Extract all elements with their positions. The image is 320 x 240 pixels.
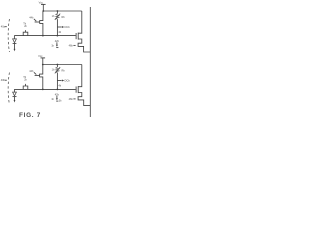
node dot bus-stem cell2 [42,64,44,66]
transistor Qa cell1 (small bracket) [40,11,43,36]
node dot Qa lower [42,35,44,37]
diode cell1: turn down from lower bus [13,36,15,39]
svg-text:46b: 46b [69,98,74,101]
svg-text:2b: 2b [24,26,27,28]
arrow across resistor cell2 [55,67,60,73]
diode stem down [14,43,16,49]
diode cathode bar cell2 [13,96,17,98]
bump on lower bus [23,32,28,35]
svg-text:DCb: DCb [65,25,71,29]
brace cell 2 [8,73,9,105]
right shared line [89,7,91,117]
DCb arrowhead cell2 [62,80,64,82]
lower bus cell2 [14,88,76,90]
svg-text:1b: 1b [51,45,54,47]
leader dash for 40b [5,79,7,81]
node dot resistor tap [57,10,59,12]
diode triangle cell2 [13,92,17,96]
node dot Qa lower cell2 [42,89,44,91]
variable resistor Rb cell1 [56,14,59,20]
leader dash for 40a [5,26,7,28]
svg-text:2b: 2b [24,80,27,82]
svg-text:44b: 44b [29,17,34,20]
diode stem down cell2 [14,97,16,101]
bump top tick [25,30,27,32]
svg-text:FIG. 7: FIG. 7 [19,112,41,119]
top bus wire cell1 [43,10,82,12]
wire bus to resistor cell2 [56,65,58,68]
svg-text:44b: 44b [29,70,34,73]
gate bar M2 [75,87,77,93]
node dot bus-stem [42,10,44,12]
small bar cell2 [56,100,58,102]
svg-text:1b: 1b [52,69,55,72]
diode triangle cell1 [13,39,17,43]
MOSFET M2 cell2: drain from bus corner [78,65,82,87]
gate wire cell2 [35,74,40,76]
down arrowhead cell2 [14,100,16,103]
small down arrow [56,45,58,47]
lower bus cell1 [14,35,76,37]
wire resistor down to lower bus cell2 [56,73,58,90]
node dot resistor tap cell2 [57,64,59,66]
power stem wire cell2 [42,58,44,65]
svg-text:1b: 1b [51,99,54,101]
channel bar M1 [77,33,79,40]
bump on lower bus cell2 [23,86,28,89]
power bar cell1 [41,3,46,5]
down arrowhead [14,49,16,52]
source jog M1 [78,39,90,52]
diode cell2: turn down from lower bus [13,89,15,92]
brace cell 1 [8,19,9,52]
svg-text:46b: 46b [69,45,74,48]
svg-text:DCb: DCb [65,79,71,83]
tick below 42b cell2 [56,96,58,99]
svg-text:Rb: Rb [62,16,66,19]
wire resistor down to lower bus [56,19,58,35]
channel bar M2 [77,86,79,93]
transistor Qa cell2 (small bracket) [40,65,43,90]
svg-text:4b: 4b [58,84,61,87]
power stem wire [42,4,44,11]
DCb branch wire cell2 [57,80,61,82]
DCb arrowhead [62,26,64,28]
small bar [56,47,58,49]
node dot lower bus / resistor cell2 [57,89,59,91]
top bus wire cell2 [43,64,82,66]
power bar cell2 [41,57,46,59]
gate bar M1 [75,33,77,39]
wire bus to resistor [56,11,58,14]
source jog M2 [78,93,90,106]
bump top tick cell2 [25,84,27,86]
svg-text:3b: 3b [59,101,62,103]
arrow across resistor [55,14,60,20]
svg-text:Tb: Tb [23,76,27,79]
MOSFET M1 cell1: drain from bus corner [78,11,82,33]
DCb branch wire [57,26,61,28]
svg-text:Tb: Tb [23,22,27,25]
svg-text:4b: 4b [58,31,61,34]
node dot lower bus / resistor [57,35,59,37]
svg-text:1b: 1b [52,15,55,18]
tick below 42b [56,42,58,45]
svg-text:Rb: Rb [62,70,66,73]
variable resistor Rb cell2 [56,67,59,73]
diode cathode bar [13,42,17,44]
small down arrow cell2 [56,98,58,100]
gate wire cell1 [35,21,40,23]
